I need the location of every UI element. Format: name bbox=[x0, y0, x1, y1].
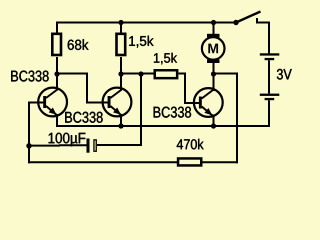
node: Q1 collector junction dot bbox=[54, 71, 59, 76]
node: Q3 collector junction dot bbox=[211, 71, 216, 76]
wire: capacitor branch riser bbox=[140, 74, 142, 146]
wire: between battery cells bbox=[268, 60, 270, 93]
wire: capacitor right lead bbox=[97, 144, 142, 146]
wire: bottom rail left segment bbox=[28, 161, 177, 163]
transistor Q3 BC338 bbox=[194, 88, 223, 117]
wire: capacitor left lead bbox=[29, 145, 60, 147]
wire: Q3 collector vertical bbox=[213, 74, 215, 91]
wire: Q1 emitter drop bbox=[56, 114, 58, 127]
wire: Q1 collector vertical bbox=[56, 74, 58, 91]
wire: emitter return rail bbox=[57, 125, 269, 127]
battery BT1 cell 2 long plate bbox=[260, 94, 280, 96]
resistor R4 470k body bbox=[178, 158, 201, 165]
motor M1 body circle bbox=[202, 37, 225, 60]
wire: R1 bottom lead bbox=[56, 57, 58, 75]
motor M1 bottom brush bbox=[207, 59, 220, 63]
motor M1 letter M bbox=[208, 44, 218, 54]
label 68k bbox=[68, 39, 89, 50]
wire: Q3 base lead bbox=[185, 102, 202, 104]
wire: feedback drop to bottom rail bbox=[236, 74, 238, 164]
capacitor C1 left plate (filled) bbox=[87, 139, 90, 153]
wire: motor bottom lead bbox=[213, 63, 215, 75]
wire: top supply rail bbox=[56, 22, 236, 24]
wire: 68k top lead bbox=[56, 22, 58, 34]
transistor Q1 BC338 bbox=[38, 88, 67, 117]
wire: Q2 base lead bbox=[86, 102, 110, 104]
node: capacitor branch junction dot bbox=[138, 71, 143, 76]
wire: Q3 emitter drop bbox=[213, 115, 215, 128]
wire: motor top lead bbox=[213, 23, 215, 35]
node: rail junction dot above R2 bbox=[118, 20, 123, 25]
node: capacitor left junction dot bbox=[26, 143, 31, 148]
wire: Q1 collector node to Q2 base jog bbox=[57, 73, 88, 75]
resistor R3 1,5k body (horizontal) bbox=[155, 70, 177, 78]
wire: jog down to Q3 base bbox=[184, 74, 186, 105]
wire: battery minus drop bbox=[268, 100, 270, 127]
resistor R1 68k body bbox=[52, 34, 61, 55]
label BC338 (Q1) bbox=[11, 71, 48, 82]
battery BT1 cell 1 long plate bbox=[260, 53, 280, 55]
node: Q2 emitter junction dot bbox=[118, 123, 123, 128]
label BC338 (Q2) bbox=[65, 112, 102, 123]
wire: battery top drop bbox=[268, 22, 270, 54]
node: Q2 collector junction dot bbox=[118, 71, 123, 76]
node: Q3 emitter junction dot bbox=[211, 123, 216, 128]
wire: R3 right lead bbox=[179, 73, 187, 75]
label 3V bbox=[277, 69, 292, 80]
wire: left vertical (base to bottom rail) bbox=[28, 102, 30, 164]
label 470k bbox=[177, 139, 204, 150]
node: rail junction dot above motor bbox=[211, 20, 216, 25]
motor M1 top brush bbox=[207, 34, 220, 38]
label 100uF bbox=[49, 133, 86, 147]
resistor R2 1,5k body bbox=[117, 34, 126, 55]
switch S1 blade bbox=[236, 12, 261, 23]
label 1,5k (R3) bbox=[154, 53, 177, 65]
wire: Q2 emitter drop bbox=[120, 114, 122, 127]
wire: R2 bottom lead bbox=[120, 57, 122, 75]
label BC338 (Q3) bbox=[154, 107, 191, 118]
switch S1 pivot dot bbox=[233, 20, 238, 25]
wire: switch contact to battery corner bbox=[256, 22, 270, 24]
label 1,5k (R2) bbox=[129, 36, 153, 48]
wire: jog down to Q2 base bbox=[86, 74, 88, 104]
switch S1 fixed contact tick bbox=[256, 18, 258, 24]
wire: Q2 collector vertical bbox=[120, 74, 122, 91]
wire: R2 top lead bbox=[120, 23, 122, 34]
wire: Q2 collector node to R3 bbox=[121, 73, 154, 75]
wire: Q1 base lead bbox=[29, 102, 46, 104]
battery BT1 cell 2 short plate bbox=[265, 98, 275, 100]
battery BT1 cell 1 short plate bbox=[265, 58, 275, 60]
wire: bottom rail right segment bbox=[203, 161, 239, 163]
capacitor C1 right plate (hollow) bbox=[94, 140, 96, 151]
transistor Q2 BC338 bbox=[103, 88, 132, 117]
wire: Q3 collector node to feedback drop bbox=[214, 73, 239, 75]
